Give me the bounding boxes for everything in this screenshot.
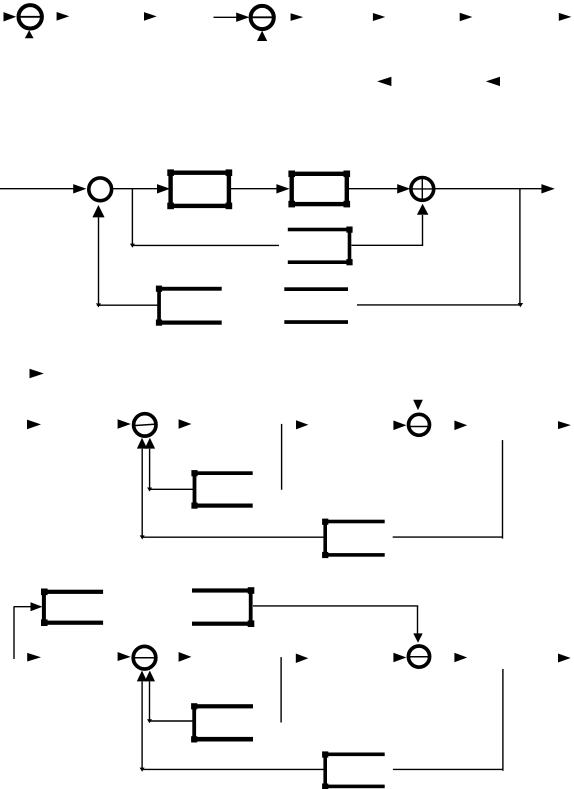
arrowhead Q2 output [454,653,467,663]
down arrowhead into summing junction Q2 [413,633,422,642]
wire output of mid diagram [434,188,542,190]
arrowhead A3 [144,12,157,21]
summing junction Q1 [133,646,156,669]
arrowhead lone above diagram 2 [30,369,44,379]
wire G1 to G2 [231,188,278,190]
arrowhead into M2 [397,184,410,193]
arrowhead A4 into S2 [236,13,249,22]
wire Hc output to vertical D3 [393,768,503,770]
summing junction M2 [410,177,434,201]
arrowhead A6 [373,13,385,21]
wire feedback vertical right below Q1 [149,682,151,722]
block H4 (right edge missing) [191,470,252,509]
wire G2 to summing junction M2 [349,188,398,190]
arrowhead D2 input [27,420,41,430]
wire into summing junction S2 [214,16,238,18]
wire feedback vertical right side D2 [502,440,504,538]
block Hb (right edge missing) [191,703,253,742]
summing junction Q2 [408,646,431,667]
up arrowhead into M2 bottom [417,204,429,215]
wire feedback vertical left below P1 [141,449,143,538]
wire into block Hb [150,720,194,722]
arrowhead P2 output [454,421,467,431]
up arrowheads (two) into P1 bottom [137,438,147,449]
left arrowhead LA2 [486,77,500,86]
summing junction S1 [18,5,42,28]
arrowhead A7 [460,13,473,22]
wire vertical dangling left D3 [13,607,15,659]
wire input diagram 3 [14,606,32,608]
block H3 (only top and bottom edges) [284,287,348,324]
wire output pickoff vertical [519,189,521,304]
summing junction P2 [408,414,430,435]
wire H5 output to vertical D2 [393,536,503,538]
wire input to mid diagram [0,188,75,190]
arrowhead into P2 [393,421,406,431]
up arrowhead into S2 bottom [257,31,267,41]
wire feedback vertical left below Q1 [141,682,143,770]
wire Gb output [253,605,418,607]
wire feedback vertical below M1 [98,217,100,305]
arrowhead into summing junction M1 [73,184,86,193]
wire pickoff vertical at node after M1 [131,189,133,246]
block G1 [167,169,232,209]
wire into block H4 [150,488,194,490]
small down arrowhead at feedback corner [518,303,523,307]
arrowhead into block G1 [157,184,170,193]
wire feedback bottom-left [97,304,158,306]
wire vertical down to Q2 [417,606,419,634]
wire vertical pickoff (dangling) [281,424,283,490]
arrowhead P1 output [179,419,192,429]
arrowhead into block G2 [276,184,289,193]
block H5 (right edge missing) [322,519,385,559]
summing junction P1 [134,414,156,436]
up arrowhead into S1 bottom [25,30,34,38]
arrowhead D2 mid [296,420,308,429]
wire feedback vertical right side D3 [502,669,504,771]
arrowhead Q1 output [179,652,192,662]
block Gb (left edge missing) [192,587,254,627]
summing junction S2 [251,6,274,29]
wire M1 to block G1 [111,188,158,190]
arrowhead into Q2 [393,653,406,663]
arrowhead D3 mid [296,654,309,664]
block H1 (left edge missing) [288,227,353,266]
block Ga (right edge missing) [41,589,103,627]
wire feedback vertical right below P1 [149,449,151,490]
arrowhead D2 far right [558,421,571,429]
wire arrowhead A1 into summing junction S1 [4,12,17,21]
arrowhead A2 [57,12,70,21]
wire long bottom D3 [142,768,324,770]
arrowhead D3 input row [27,653,41,662]
up arrowhead into M1 bottom [92,205,104,217]
arrowhead into summing junction P1 [118,419,131,429]
arrowhead A5 [291,13,304,21]
block G2 [288,171,350,208]
down arrowhead above summing junction P2 [413,400,423,411]
arrowhead D3 far right [558,654,571,663]
wire H1 to M2 feedback [352,244,424,246]
block Hc (right edge missing) [322,751,385,789]
wire mid feedback to block H1 [132,244,279,246]
arrowhead into summing junction Q1 [118,652,131,661]
block H2 (right edge missing) [156,286,222,326]
arrowhead A8 [559,13,572,21]
wire vertical pickoff (dangling) D3 [280,657,282,722]
left arrowhead LA1 [377,77,391,86]
arrowhead into block Ga [31,602,43,611]
up arrowheads (two) into Q1 bottom [137,671,147,682]
arrowhead output [541,184,554,193]
wire vertical up to M2 [422,215,424,245]
summing junction M1 [89,178,112,201]
wire feedback bottom-right [357,304,521,306]
wire long bottom D2 [142,536,324,538]
